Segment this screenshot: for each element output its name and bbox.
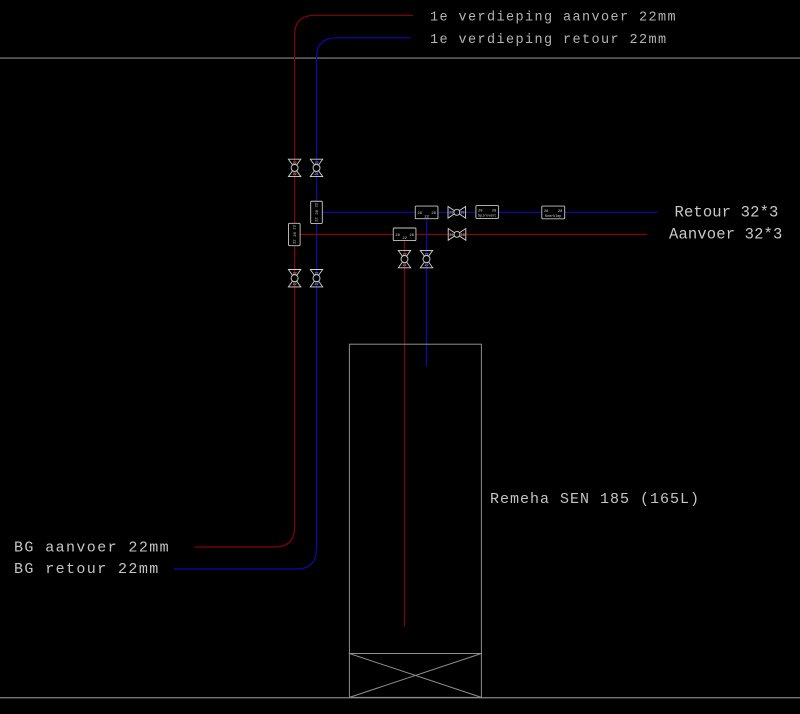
label: BG aanvoer 22mm	[14, 539, 170, 556]
svg-text:Aanvoer 32*3: Aanvoer 32*3	[669, 226, 782, 244]
valve V6 (vertical, on blue drop)	[420, 250, 432, 268]
boiler Remeha SEN 185	[349, 344, 481, 697]
svg-text:Keerklep: Keerklep	[545, 214, 561, 219]
wire: red drop to boiler	[404, 241, 406, 626]
label: Aanvoer 32*3	[669, 226, 782, 244]
svg-text:28: 28	[478, 209, 483, 213]
tee T1 (on blue riser)	[311, 201, 323, 223]
label: 1e verdieping aanvoer 22mm	[430, 11, 677, 26]
svg-text:28: 28	[544, 210, 549, 214]
valve V8 (horizontal, on red line)	[448, 229, 466, 241]
valve V2 (vertical, on blue riser)	[310, 159, 322, 177]
label: Remeha SEN 185 (165L)	[490, 491, 700, 508]
valve V1 (vertical, on red riser)	[288, 159, 300, 177]
valve V4 (vertical, on blue riser lower)	[310, 270, 322, 288]
label: Retour 32*3	[675, 204, 779, 222]
svg-text:Retour 32*3: Retour 32*3	[675, 204, 779, 222]
svg-text:1e verdieping aanvoer 22mm: 1e verdieping aanvoer 22mm	[430, 11, 677, 26]
tee T2 (on red riser)	[289, 223, 301, 245]
wire: blue retour horizontal 32*3	[322, 211, 658, 213]
svg-text:BG aanvoer 22mm: BG aanvoer 22mm	[14, 539, 170, 556]
wire: blue drop to boiler	[426, 219, 428, 366]
label: BG retour 22mm	[14, 561, 160, 578]
tee T3 (on blue horizontal)	[415, 206, 438, 219]
valve V7 (horizontal, on blue line)	[448, 206, 466, 218]
air separator Spirovent	[476, 206, 499, 219]
ceiling line	[0, 57, 800, 58]
wire: blue retour riser (BG -> 1e verdieping)	[174, 38, 411, 569]
tee T4 (on red horizontal)	[393, 228, 416, 241]
svg-text:Remeha SEN 185 (165L): Remeha SEN 185 (165L)	[490, 491, 700, 508]
svg-text:1e verdieping retour 22mm: 1e verdieping retour 22mm	[430, 33, 668, 48]
svg-text:28: 28	[558, 210, 563, 214]
floor line	[0, 697, 800, 698]
wire: red aanvoer riser (BG -> 1e verdieping)	[195, 15, 413, 547]
valve V5 (vertical, on red drop)	[398, 250, 410, 268]
label: 1e verdieping retour 22mm	[430, 33, 668, 48]
check valve Keerklep	[542, 206, 565, 219]
svg-text:Spirovent: Spirovent	[478, 213, 496, 218]
wire: red aanvoer horizontal 32*3	[301, 233, 648, 235]
svg-text:28: 28	[492, 209, 497, 213]
valve V3 (vertical, on red riser lower)	[288, 270, 300, 288]
svg-text:BG retour 22mm: BG retour 22mm	[14, 561, 160, 578]
